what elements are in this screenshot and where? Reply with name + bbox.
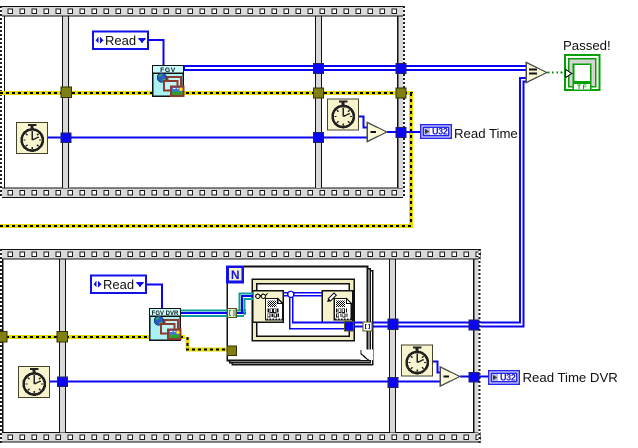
- tick count clock 1 (top frame 1): [17, 123, 48, 154]
- wire error vertical down right side: [409, 93, 413, 228]
- enum constant Read (bottom): [91, 276, 146, 294]
- tick count clock 4 (bottom frame 1): [19, 367, 50, 398]
- wire error FGV DVR jog down to for loop tunnel: [186, 337, 190, 350]
- wire array from loop tunnel to right border (double line): [353, 322, 479, 328]
- tunnel blue divider1 (ms scalar): [58, 377, 68, 387]
- wire U32 array from FGV to equals (double line): [183, 65, 526, 71]
- tunnel blue right border (result): [396, 128, 406, 138]
- flat sequence 1 divider 1: [62, 17, 69, 189]
- flat sequence 1 divider 2: [315, 17, 322, 189]
- flat sequence 1 right border zipper: [403, 6, 405, 198]
- tunnel blue divider1 (ms scalar): [61, 133, 71, 143]
- wire enum Read to FGV: [148, 39, 165, 66]
- in-place element structure border: [252, 279, 354, 341]
- flat sequence 2 bottom film band: [0, 432, 481, 443]
- wire tick count 3 elbow to subtract 2 top input: [432, 361, 442, 374]
- eyeglasses glyph: [256, 293, 268, 298]
- wire subtract 2 output to Read Time DVR indicator: [460, 376, 489, 378]
- svg-text:Read: Read: [105, 33, 136, 48]
- wire boolean dotted from equal? to Passed!: [548, 72, 566, 74]
- for loop page curl corner: [360, 350, 373, 361]
- tunnel blue divider2 (array): [314, 64, 324, 74]
- flat sequence 1 top film band: [0, 6, 405, 17]
- svg-text:Read Time DVR: Read Time DVR: [523, 370, 618, 385]
- indicator U32 Read Time DVR: [489, 371, 519, 384]
- tunnel olive divider1 (error): [61, 87, 72, 98]
- tunnel indexing [] on for loop right border: [363, 322, 372, 331]
- tunnel blue solid on IPE right border (array out): [345, 322, 354, 332]
- wire DVR from FGV DVR to loop tunnel (teal/blue/teal): [181, 310, 228, 317]
- tunnel olive left border (error in): [0, 332, 7, 343]
- subVI FGV DVR (bottom): [150, 309, 181, 341]
- for loop shadow layer 2: [230, 269, 371, 363]
- wire array branch down from junction (double line): [289, 296, 345, 330]
- wire error left edge to FGV DVR: [0, 335, 185, 339]
- wire subtract output to Read Time indicator: [387, 131, 421, 133]
- svg-text:U32: U32: [432, 127, 448, 137]
- in-place element structure inner diagram: [257, 284, 349, 336]
- tick count clock 2 (top frame 3): [328, 99, 359, 130]
- for loop N terminal: [228, 267, 243, 282]
- equal? node: [526, 62, 547, 82]
- tunnel olive right border (error): [396, 88, 406, 98]
- for loop main border: [227, 267, 367, 361]
- svg-text:U32: U32: [500, 373, 516, 383]
- wire error from right border tunnel going right: [404, 91, 413, 95]
- flat sequence 2 right border: [473, 260, 479, 433]
- wire DVR from tunnel up into read element (teal/blue/teal): [236, 293, 253, 317]
- tunnel olive divider1 (error): [57, 332, 68, 343]
- wire array read element to junction to write element (double line): [283, 292, 322, 297]
- tunnel blue divider2 (array): [388, 319, 398, 330]
- wire error long horizontal between structures: [0, 224, 413, 228]
- svg-text:FGV DVR: FGV DVR: [152, 311, 179, 317]
- boolean indicator Passed!: [565, 55, 600, 91]
- subtract node 1 (top): [367, 122, 387, 141]
- wire U32 array vertical from bottom loop up to equals (double line): [479, 77, 527, 328]
- indicator U32 Read Time: [421, 125, 451, 138]
- tunnel blue right border (time): [469, 373, 479, 383]
- flat sequence 2 right border zipper: [478, 249, 480, 443]
- wire U32 scalar from tick count 4 to subtract 2: [50, 381, 441, 383]
- tick count clock 3 (bottom frame 3): [402, 345, 433, 376]
- svg-text:TF: TF: [577, 84, 588, 91]
- enum constant Read (top): [93, 32, 148, 50]
- tunnel DVR in on for loop left border: [228, 309, 237, 318]
- tunnel olive for loop left border (error): [227, 346, 237, 356]
- svg-text:Read Time: Read Time: [454, 126, 518, 141]
- DVR read element node (left border of IPE): [253, 291, 284, 323]
- subVI FGV (top): [153, 66, 184, 97]
- flat sequence 1 right border: [397, 17, 403, 189]
- flat sequence 2 left border zipper: [0, 249, 2, 443]
- subtract node 2 (bottom): [440, 367, 460, 386]
- pencil glyph: [327, 293, 336, 302]
- wire U32 scalar from tick count 1 to subtract: [48, 137, 368, 139]
- svg-text:N: N: [231, 268, 240, 282]
- tunnel blue right border (array): [469, 320, 479, 330]
- for loop shadow layer 3: [232, 271, 373, 365]
- flat sequence 2 divider 1: [59, 260, 66, 433]
- wire error cluster through top structure: [0, 91, 397, 95]
- DVR write element node (right border of IPE): [322, 291, 353, 323]
- flat sequence 1 left border zipper: [0, 6, 2, 198]
- tunnel blue divider2 (ms scalar): [388, 378, 398, 388]
- tunnel olive divider2 (error): [314, 88, 324, 98]
- tunnel blue right border (array): [396, 64, 406, 74]
- document icon: [266, 299, 283, 320]
- flat sequence 2 frame 1 left edge: [2, 259, 3, 433]
- flat sequence 2 top film band: [0, 249, 481, 260]
- document icon: [334, 299, 351, 320]
- wire enum Read 2 to FGV DVR: [146, 284, 163, 309]
- svg-text:Passed!: Passed!: [563, 38, 611, 53]
- junction circle on array wire: [288, 291, 294, 297]
- flat sequence 1 bottom film band: [0, 188, 405, 199]
- tunnel blue divider2 (ms scalar): [314, 133, 324, 143]
- flat sequence 1 frame 1 left edge: [4, 16, 5, 188]
- wire tick count 2 elbow to subtract top input: [359, 116, 368, 129]
- flat sequence 2 divider 2: [389, 260, 396, 433]
- svg-text:Read: Read: [103, 277, 134, 292]
